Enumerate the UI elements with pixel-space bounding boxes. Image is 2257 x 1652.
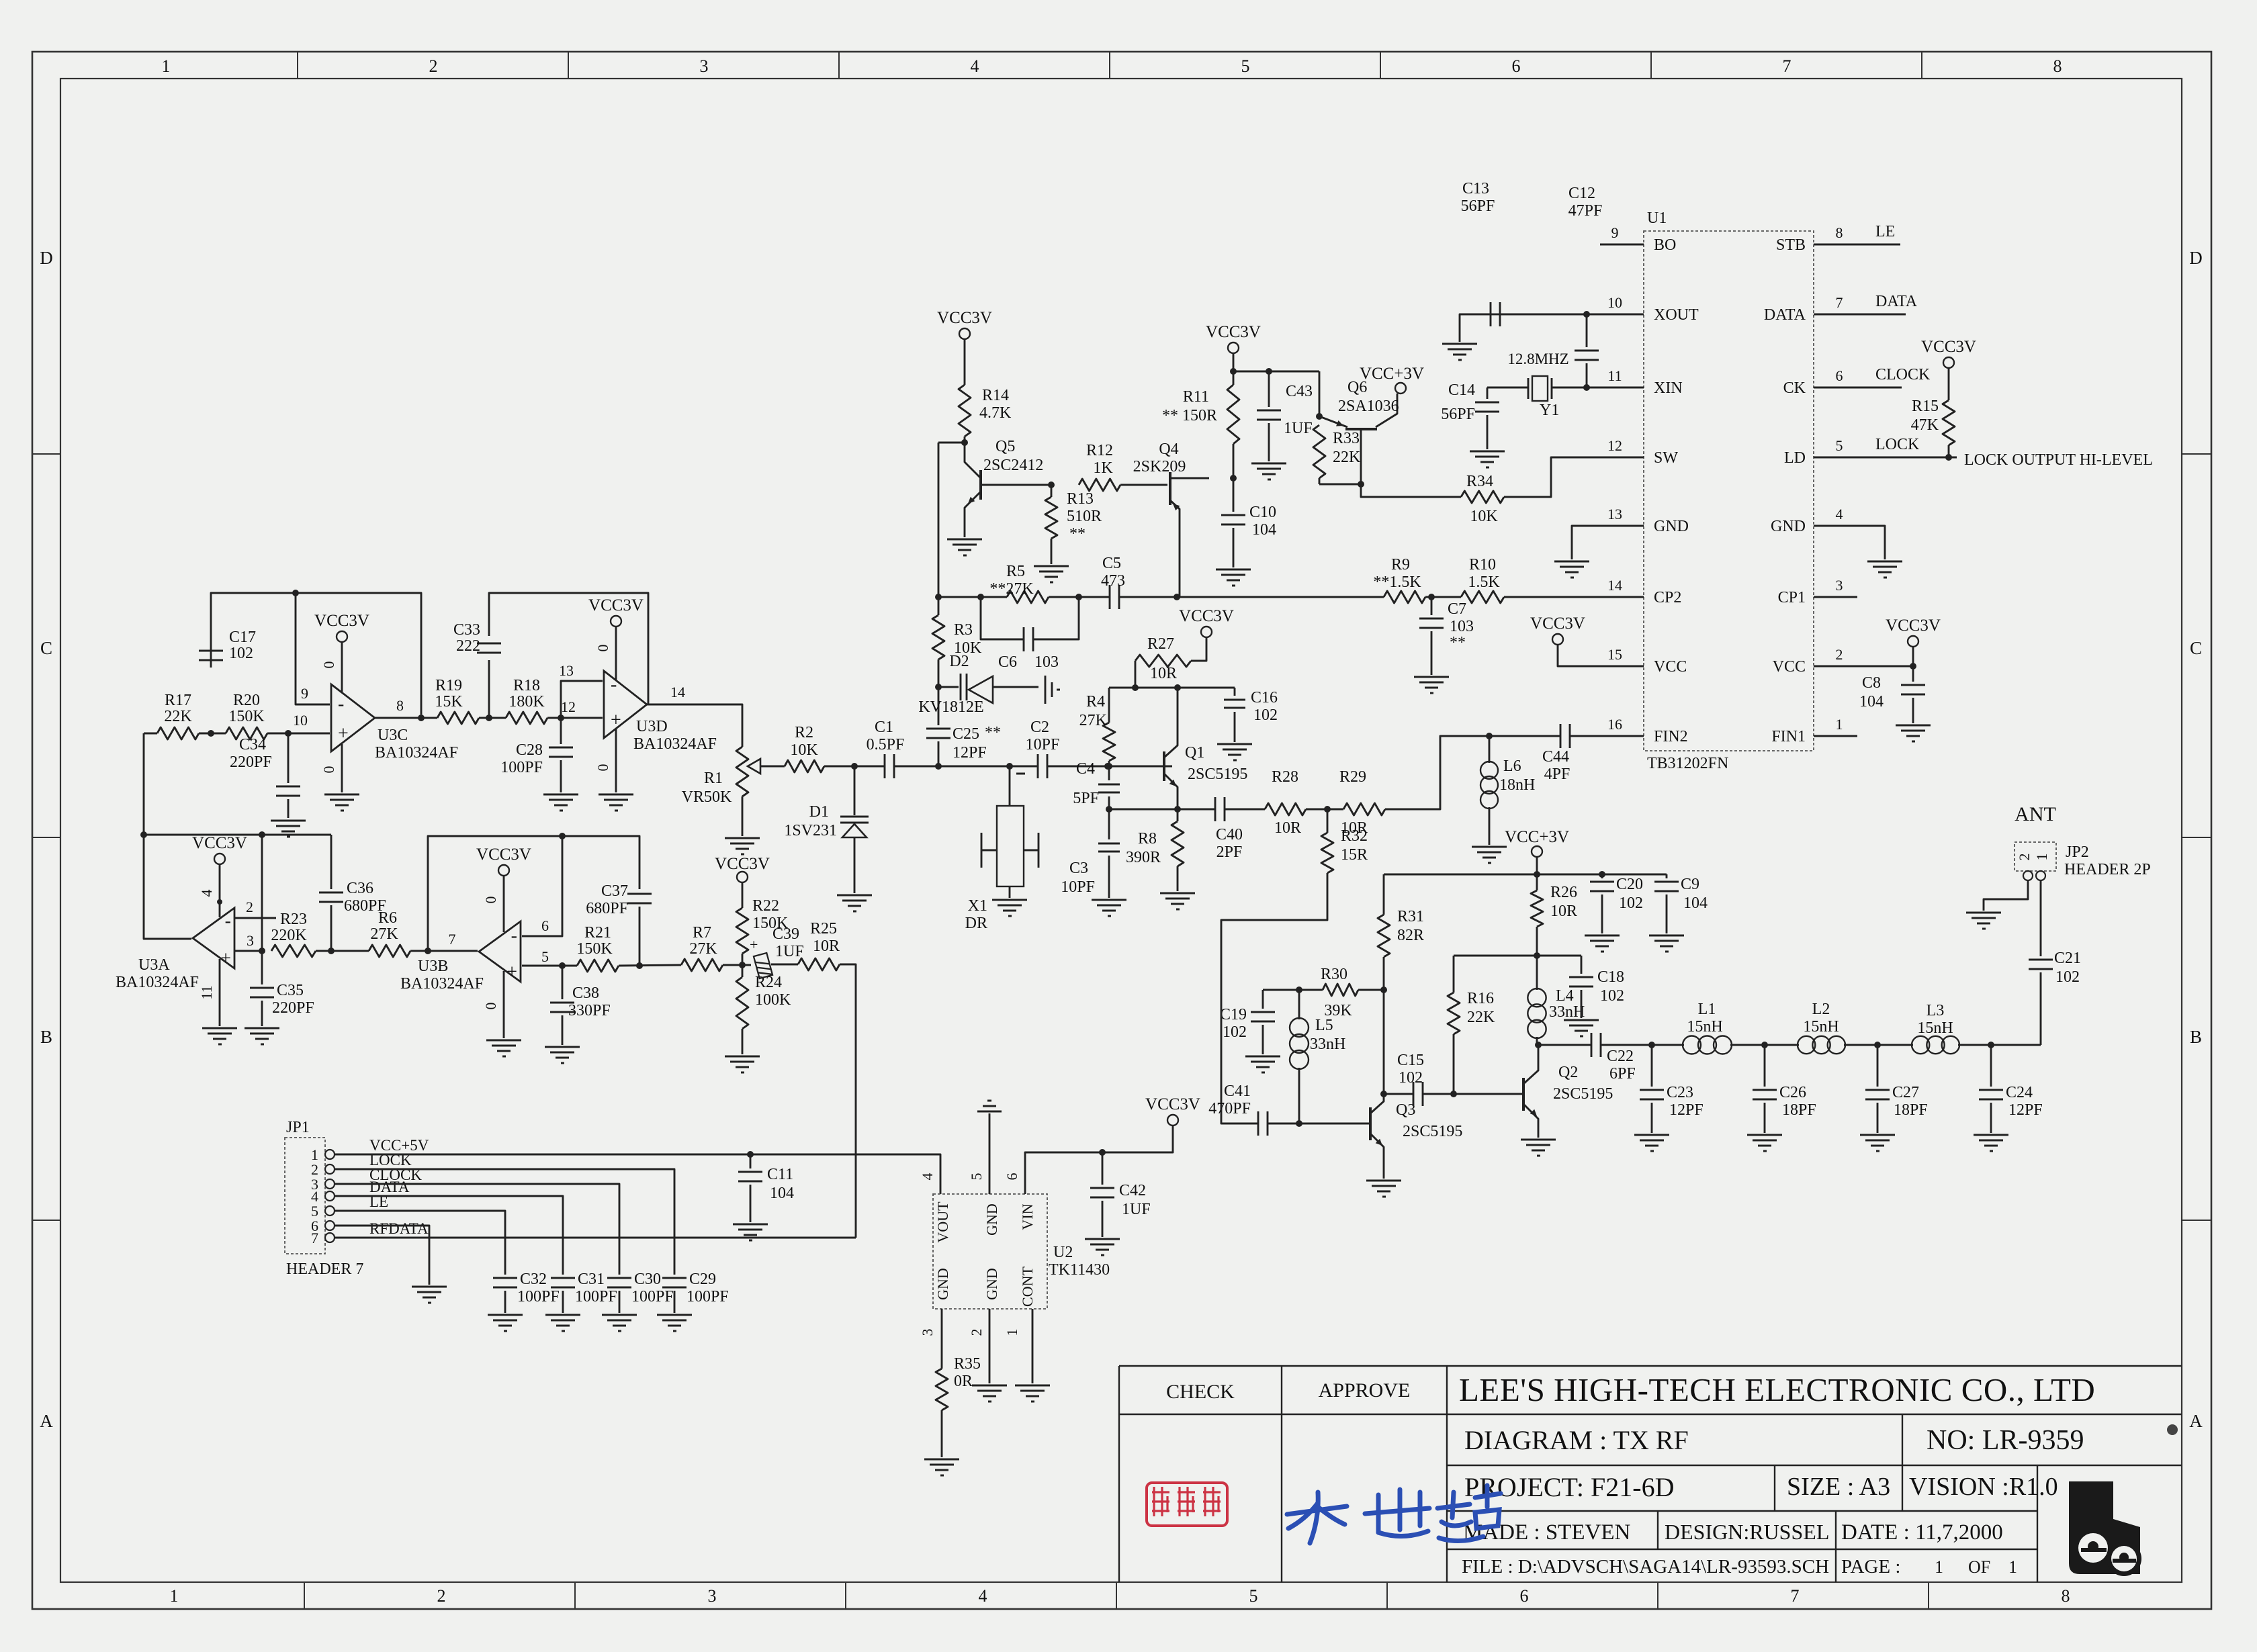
connector JP1 HEADER 7 <box>285 1138 325 1254</box>
svg-text:1: 1 <box>170 1586 179 1606</box>
wire <box>824 766 885 768</box>
svg-text:C32: C32 <box>520 1271 547 1288</box>
pin 16 FIN2 <box>1600 735 1644 737</box>
svg-text:C29: C29 <box>689 1271 716 1288</box>
svg-text:C33: C33 <box>453 621 480 639</box>
svg-text:8: 8 <box>2062 1586 2070 1606</box>
svg-text:C7: C7 <box>1448 600 1466 618</box>
ground <box>992 899 1027 901</box>
svg-text:R21: R21 <box>584 924 611 942</box>
svg-text:4.7K: 4.7K <box>979 404 1012 422</box>
svg-text:D2: D2 <box>949 653 969 670</box>
transistor Q6 2SA1036 <box>1345 428 1377 430</box>
capacitor C19 <box>1262 990 1264 1009</box>
svg-text:13: 13 <box>1607 506 1622 522</box>
wire PA rail <box>1384 874 1667 876</box>
svg-text:2SA1036: 2SA1036 <box>1338 398 1399 415</box>
svg-text:10R: 10R <box>1274 819 1301 837</box>
junction <box>259 831 265 838</box>
svg-text:R34: R34 <box>1466 473 1493 490</box>
resistor R8 <box>1177 809 1179 821</box>
svg-text:100PF: 100PF <box>575 1288 617 1305</box>
svg-text:C26: C26 <box>1779 1084 1806 1101</box>
capacitor C40 <box>1214 797 1216 821</box>
svg-text:**1.5K: **1.5K <box>1373 573 1421 591</box>
resistor R18 <box>506 712 547 724</box>
junction <box>1450 1091 1457 1097</box>
power VCC3V <box>1908 636 1918 647</box>
svg-text:+: + <box>750 936 758 953</box>
svg-text:R32: R32 <box>1341 827 1368 845</box>
svg-text:C31: C31 <box>578 1271 605 1288</box>
svg-text:JP2: JP2 <box>2066 843 2089 861</box>
svg-text:JP1: JP1 <box>286 1119 310 1136</box>
junction <box>486 715 492 721</box>
wire RFDATA <box>335 1237 856 1239</box>
capacitor C1 <box>884 754 886 778</box>
svg-text:VCC3V: VCC3V <box>1179 607 1234 625</box>
ground <box>1634 1134 1669 1136</box>
svg-text:XOUT: XOUT <box>1654 306 1699 324</box>
crystal X1 DR resonator <box>1009 766 1011 806</box>
svg-text:4: 4 <box>971 56 979 76</box>
svg-text:CONT: CONT <box>1019 1266 1036 1306</box>
svg-text:2: 2 <box>2016 854 2033 861</box>
JP1 pin 6 <box>325 1221 335 1230</box>
svg-text:150K: 150K <box>228 708 265 725</box>
wire U3B inverting vertical <box>522 836 562 936</box>
svg-text:11: 11 <box>1607 367 1622 384</box>
svg-text:1K: 1K <box>1093 459 1113 477</box>
svg-text:1: 1 <box>1935 1557 1943 1577</box>
resistor R31 <box>1383 874 1385 915</box>
capacitor C34 <box>287 733 290 783</box>
svg-text:C28: C28 <box>516 741 543 759</box>
svg-text:2: 2 <box>968 1329 985 1336</box>
svg-text:15nH: 15nH <box>1687 1018 1722 1036</box>
wire pin13 GND <box>1572 526 1600 559</box>
junction <box>1296 986 1302 993</box>
JP1 pin 7 <box>325 1233 335 1242</box>
wire <box>1049 596 1109 598</box>
svg-text:C14: C14 <box>1448 381 1475 399</box>
wire <box>1268 1123 1369 1125</box>
svg-text:C: C <box>40 638 52 658</box>
junction <box>1230 368 1237 375</box>
svg-text:8: 8 <box>2053 56 2062 76</box>
wire pin6 ground <box>335 1226 429 1285</box>
svg-text:100PF: 100PF <box>517 1288 560 1305</box>
svg-text:10R: 10R <box>1550 903 1577 920</box>
svg-text:680PF: 680PF <box>586 900 628 917</box>
svg-text:R19: R19 <box>435 677 462 694</box>
wire R34 to SW pin <box>1504 457 1644 497</box>
svg-text:BO: BO <box>1654 236 1676 254</box>
junction <box>1534 952 1540 959</box>
svg-text:VCC3V: VCC3V <box>1530 614 1585 633</box>
svg-text:U3B: U3B <box>418 958 448 975</box>
svg-text:10K: 10K <box>1470 508 1498 525</box>
power VCC3V <box>1167 1115 1178 1126</box>
junction <box>1599 871 1605 878</box>
junction <box>961 439 968 446</box>
svg-text:220PF: 220PF <box>272 999 314 1017</box>
svg-text:0: 0 <box>320 661 337 669</box>
junction <box>1048 481 1055 488</box>
svg-text:STB: STB <box>1776 236 1806 254</box>
svg-text:PROJECT: F21-6D: PROJECT: F21-6D <box>1464 1472 1675 1502</box>
junction <box>747 1151 754 1158</box>
capacitor C43 <box>1268 371 1270 407</box>
svg-text:R18: R18 <box>513 677 540 694</box>
power VCC3V <box>959 328 970 339</box>
svg-text:R20: R20 <box>233 692 260 709</box>
svg-text:C9: C9 <box>1681 876 1699 893</box>
capacitor C22 <box>1591 1033 1593 1057</box>
svg-text:2SC5195: 2SC5195 <box>1188 766 1247 783</box>
capacitor C41 <box>1257 1111 1259 1136</box>
svg-text:VCC3V: VCC3V <box>314 612 369 630</box>
junction <box>1380 986 1387 993</box>
svg-text:6: 6 <box>541 917 549 934</box>
svg-text:PAGE :: PAGE : <box>1841 1556 1900 1577</box>
junction <box>739 962 746 968</box>
svg-text:2: 2 <box>437 1586 446 1606</box>
svg-text:3: 3 <box>700 56 709 76</box>
potentiometer R1 VR50K <box>736 747 748 796</box>
svg-text:**: ** <box>985 724 1001 741</box>
svg-text:VCC3V: VCC3V <box>715 855 770 873</box>
power VCC3V <box>498 865 509 876</box>
junction <box>636 962 643 969</box>
svg-text:1UF: 1UF <box>1284 420 1313 437</box>
ground <box>1414 676 1449 678</box>
wire U3A ground pin <box>219 959 221 1026</box>
svg-text:GND: GND <box>983 1268 1000 1300</box>
capacitor C16 <box>1234 688 1236 696</box>
svg-text:6: 6 <box>1512 56 1521 76</box>
pin 3 CP1 <box>1814 596 1857 598</box>
resistor R27 <box>1135 661 1137 688</box>
ground <box>1974 1134 2008 1136</box>
wire LOCK / LD <box>1857 457 1957 459</box>
svg-text:0: 0 <box>320 766 337 774</box>
svg-text:47PF: 47PF <box>1568 202 1603 220</box>
capacitor C2 <box>1037 754 1039 778</box>
wire LOCK <box>335 1169 674 1275</box>
ground <box>412 1286 447 1288</box>
svg-text:5PF: 5PF <box>1073 790 1099 807</box>
junction <box>1583 384 1590 391</box>
svg-text:C42: C42 <box>1119 1182 1146 1199</box>
op-amp U3B <box>479 921 521 982</box>
junction <box>140 831 147 838</box>
svg-text:473: 473 <box>1101 572 1125 590</box>
junction <box>1296 1120 1302 1127</box>
ground <box>1015 1385 1050 1387</box>
svg-text:GND: GND <box>1654 518 1689 535</box>
svg-text:C34: C34 <box>239 736 266 753</box>
svg-text:C22: C22 <box>1607 1048 1634 1065</box>
svg-text:FIN2: FIN2 <box>1654 728 1688 745</box>
wire C15 row <box>1384 1093 1413 1095</box>
svg-text:15nH: 15nH <box>1917 1019 1953 1037</box>
junction <box>935 763 942 770</box>
svg-text:C18: C18 <box>1597 968 1624 986</box>
svg-text:10R: 10R <box>813 937 840 955</box>
svg-text:**: ** <box>1069 525 1086 543</box>
ground <box>543 794 578 796</box>
svg-text:8: 8 <box>1836 224 1843 241</box>
svg-text:C1: C1 <box>875 719 893 736</box>
resistor R30 <box>1323 984 1358 996</box>
svg-text:FIN1: FIN1 <box>1771 728 1806 745</box>
wire to node7 <box>410 950 478 952</box>
ground <box>1472 846 1507 848</box>
junction <box>1380 1091 1387 1097</box>
power VCC+3V <box>1532 846 1542 857</box>
junction <box>1945 454 1952 461</box>
svg-text:18nH: 18nH <box>1499 776 1535 794</box>
svg-text:1: 1 <box>162 56 171 76</box>
wire U3D output pin14 to R1 <box>647 704 742 747</box>
wire XOUT row <box>1491 314 1500 316</box>
ground <box>1245 1056 1280 1058</box>
resistor R2 <box>785 760 824 772</box>
svg-text:100PF: 100PF <box>500 759 543 776</box>
svg-text:3: 3 <box>919 1329 936 1336</box>
pin 13 GND <box>1600 525 1644 527</box>
svg-text:1: 1 <box>1004 1329 1020 1336</box>
resistor R33 <box>1313 425 1325 478</box>
svg-text:6: 6 <box>1520 1586 1529 1606</box>
svg-text:C2: C2 <box>1030 719 1049 736</box>
transistor Q4 2SK209 JFET <box>1169 472 1171 505</box>
svg-text:LE: LE <box>1875 223 1895 240</box>
pin 14 CP2 <box>1600 596 1644 598</box>
svg-text:15R: 15R <box>1341 846 1368 864</box>
svg-text:8: 8 <box>396 697 404 714</box>
svg-text:100K: 100K <box>755 991 791 1009</box>
svg-text:R1: R1 <box>704 770 723 787</box>
wire CLOCK <box>1857 387 1902 389</box>
svg-text:HEADER 7: HEADER 7 <box>286 1260 363 1278</box>
svg-text:FILE : D:\ADVSCH\SAGA14\LR-935: FILE : D:\ADVSCH\SAGA14\LR-93593.SCH <box>1462 1556 1829 1577</box>
wire R5 row <box>938 596 1007 598</box>
svg-text:** 150R: ** 150R <box>1162 407 1217 424</box>
svg-text:U3C: U3C <box>378 727 408 744</box>
ground <box>1585 935 1620 937</box>
junction <box>217 899 222 905</box>
svg-text:10PF: 10PF <box>1061 878 1095 896</box>
svg-text:0.5PF: 0.5PF <box>867 736 905 753</box>
svg-text:4: 4 <box>1836 506 1843 522</box>
svg-text:R10: R10 <box>1469 556 1496 573</box>
svg-text:12PF: 12PF <box>1669 1101 1703 1119</box>
capacitor C11 <box>750 1154 752 1168</box>
svg-text:9: 9 <box>301 685 308 702</box>
svg-text:B: B <box>40 1027 52 1047</box>
resistor R5 <box>1007 591 1049 603</box>
capacitor C15 <box>1413 1082 1415 1106</box>
svg-text:SW: SW <box>1654 449 1678 467</box>
svg-text:U1: U1 <box>1647 210 1667 227</box>
svg-text:TB31202FN: TB31202FN <box>1647 755 1728 772</box>
wire <box>1047 766 1172 768</box>
svg-text:C25: C25 <box>953 725 979 743</box>
svg-text:3: 3 <box>247 932 254 949</box>
wire base row to R34 <box>1361 484 1461 497</box>
wire R30 right <box>1358 989 1384 991</box>
svg-text:APPROVE: APPROVE <box>1319 1379 1411 1402</box>
svg-text:12: 12 <box>561 698 576 715</box>
wire R25 down to RFDATA <box>840 964 856 1238</box>
svg-text:10: 10 <box>293 712 308 729</box>
svg-text:C21: C21 <box>2054 950 2081 967</box>
wire DATA <box>1857 314 1906 316</box>
svg-text:C19: C19 <box>1220 1006 1247 1023</box>
wire <box>964 437 966 443</box>
wire pin2 VCC <box>1814 666 1913 668</box>
pin 4 GND <box>1814 525 1857 527</box>
wire pin1 ground <box>1032 1309 1034 1383</box>
svg-text:R29: R29 <box>1339 768 1366 786</box>
pin 11 XIN <box>1600 387 1644 389</box>
ground <box>1366 1180 1401 1182</box>
ground <box>1521 1139 1556 1141</box>
svg-text:XIN: XIN <box>1654 379 1683 397</box>
svg-text:100PF: 100PF <box>687 1288 729 1305</box>
svg-text:D1: D1 <box>809 803 829 821</box>
resistor R4 <box>1108 688 1110 723</box>
svg-text:CK: CK <box>1783 379 1806 397</box>
wire vertical to node3 <box>261 835 263 951</box>
ground <box>987 1100 991 1102</box>
svg-text:18PF: 18PF <box>1894 1101 1928 1119</box>
svg-text:220K: 220K <box>271 927 307 944</box>
junction <box>1230 475 1237 481</box>
capacitor C29 <box>662 1277 687 1279</box>
JP1 pin 2 <box>325 1164 335 1174</box>
svg-text:22K: 22K <box>1333 449 1361 466</box>
svg-text:33nH: 33nH <box>1549 1003 1585 1021</box>
svg-text:12PF: 12PF <box>2008 1101 2043 1119</box>
wire <box>1958 1044 2041 1046</box>
junction <box>425 948 431 954</box>
svg-text:VCC+3V: VCC+3V <box>1505 828 1569 846</box>
svg-text:C8: C8 <box>1862 674 1881 692</box>
svg-text:U2: U2 <box>1053 1244 1073 1261</box>
resistor R11 <box>1227 385 1239 444</box>
svg-text:MADE : STEVEN: MADE : STEVEN <box>1463 1520 1630 1545</box>
svg-text:R14: R14 <box>982 387 1009 404</box>
junction <box>259 948 265 954</box>
svg-text:4: 4 <box>919 1173 936 1181</box>
junction <box>1106 763 1112 770</box>
wire <box>894 766 1038 768</box>
svg-text:6: 6 <box>1004 1173 1020 1181</box>
junction <box>851 763 858 770</box>
capacitor C33 <box>477 636 501 660</box>
svg-text:12.8MHZ: 12.8MHZ <box>1507 351 1568 367</box>
resistor R7 <box>681 959 723 971</box>
wire <box>1306 809 1343 811</box>
junction <box>1358 481 1364 488</box>
Lee logo <box>2069 1481 2141 1576</box>
capacitor C3 <box>1108 809 1110 839</box>
svg-text:L3: L3 <box>1927 1002 1945 1019</box>
wire pin9 to inverting input <box>296 593 330 704</box>
svg-text:5: 5 <box>1249 1586 1258 1606</box>
svg-text:R33: R33 <box>1333 430 1360 447</box>
svg-text:104: 104 <box>770 1185 794 1202</box>
ground <box>733 1224 768 1226</box>
resistor R28 <box>1265 803 1306 815</box>
svg-text:TK11430: TK11430 <box>1049 1261 1110 1279</box>
JP1 pin 5 <box>325 1206 335 1215</box>
svg-text:2SC2412: 2SC2412 <box>983 457 1043 474</box>
resistor R3 <box>932 615 944 659</box>
blue signature <box>1287 1485 1501 1543</box>
pin 7 DATA <box>1814 314 1857 316</box>
svg-text:C3: C3 <box>1069 860 1088 877</box>
capacitor C18 <box>1581 956 1583 974</box>
svg-text:CHECK: CHECK <box>1166 1381 1235 1403</box>
inductor L4 <box>1536 956 1538 990</box>
power VCC3V <box>1228 342 1239 353</box>
wire R30 left <box>1263 989 1323 991</box>
junction <box>1174 594 1180 600</box>
wire <box>1425 596 1461 598</box>
svg-text:A: A <box>40 1411 53 1431</box>
svg-text:KV1812E: KV1812E <box>918 698 983 716</box>
svg-text:1UF: 1UF <box>775 943 804 960</box>
power VCC3V <box>1943 357 1954 368</box>
svg-text:C40: C40 <box>1216 826 1243 843</box>
power VCC3V <box>737 872 748 882</box>
wire U3A inverting input <box>234 917 276 919</box>
svg-text:VCC3V: VCC3V <box>937 309 992 327</box>
svg-text:47K: 47K <box>1911 416 1939 434</box>
svg-text:C38: C38 <box>572 984 599 1002</box>
svg-text:VOUT: VOUT <box>934 1201 951 1243</box>
resistor R17 <box>157 727 199 739</box>
svg-text:0: 0 <box>594 645 611 652</box>
ground <box>1442 343 1477 345</box>
ground <box>545 1314 580 1316</box>
ground <box>725 1056 760 1058</box>
wire U3C ground pin <box>341 744 343 792</box>
wire pin4 GND <box>1857 526 1885 559</box>
resistor R19 <box>437 712 479 724</box>
wire R18 to U3D +input <box>547 717 603 719</box>
svg-text:R8: R8 <box>1138 830 1157 847</box>
ground <box>1747 1134 1782 1136</box>
ground <box>1470 451 1505 453</box>
svg-text:VCC3V: VCC3V <box>588 596 644 614</box>
pin 8 STB <box>1814 244 1857 246</box>
power VCC3V <box>1201 627 1212 637</box>
junction <box>1266 368 1272 375</box>
capacitor C21 <box>2040 972 2042 1045</box>
svg-text:R6: R6 <box>378 909 397 927</box>
op-amp U3D <box>604 671 647 738</box>
varactor diode D1 1SV231 <box>854 766 856 815</box>
wire net U3D feedback top <box>489 593 648 718</box>
op-amp U3A <box>193 908 234 968</box>
wire <box>199 733 226 735</box>
svg-text:L4: L4 <box>1556 987 1574 1005</box>
